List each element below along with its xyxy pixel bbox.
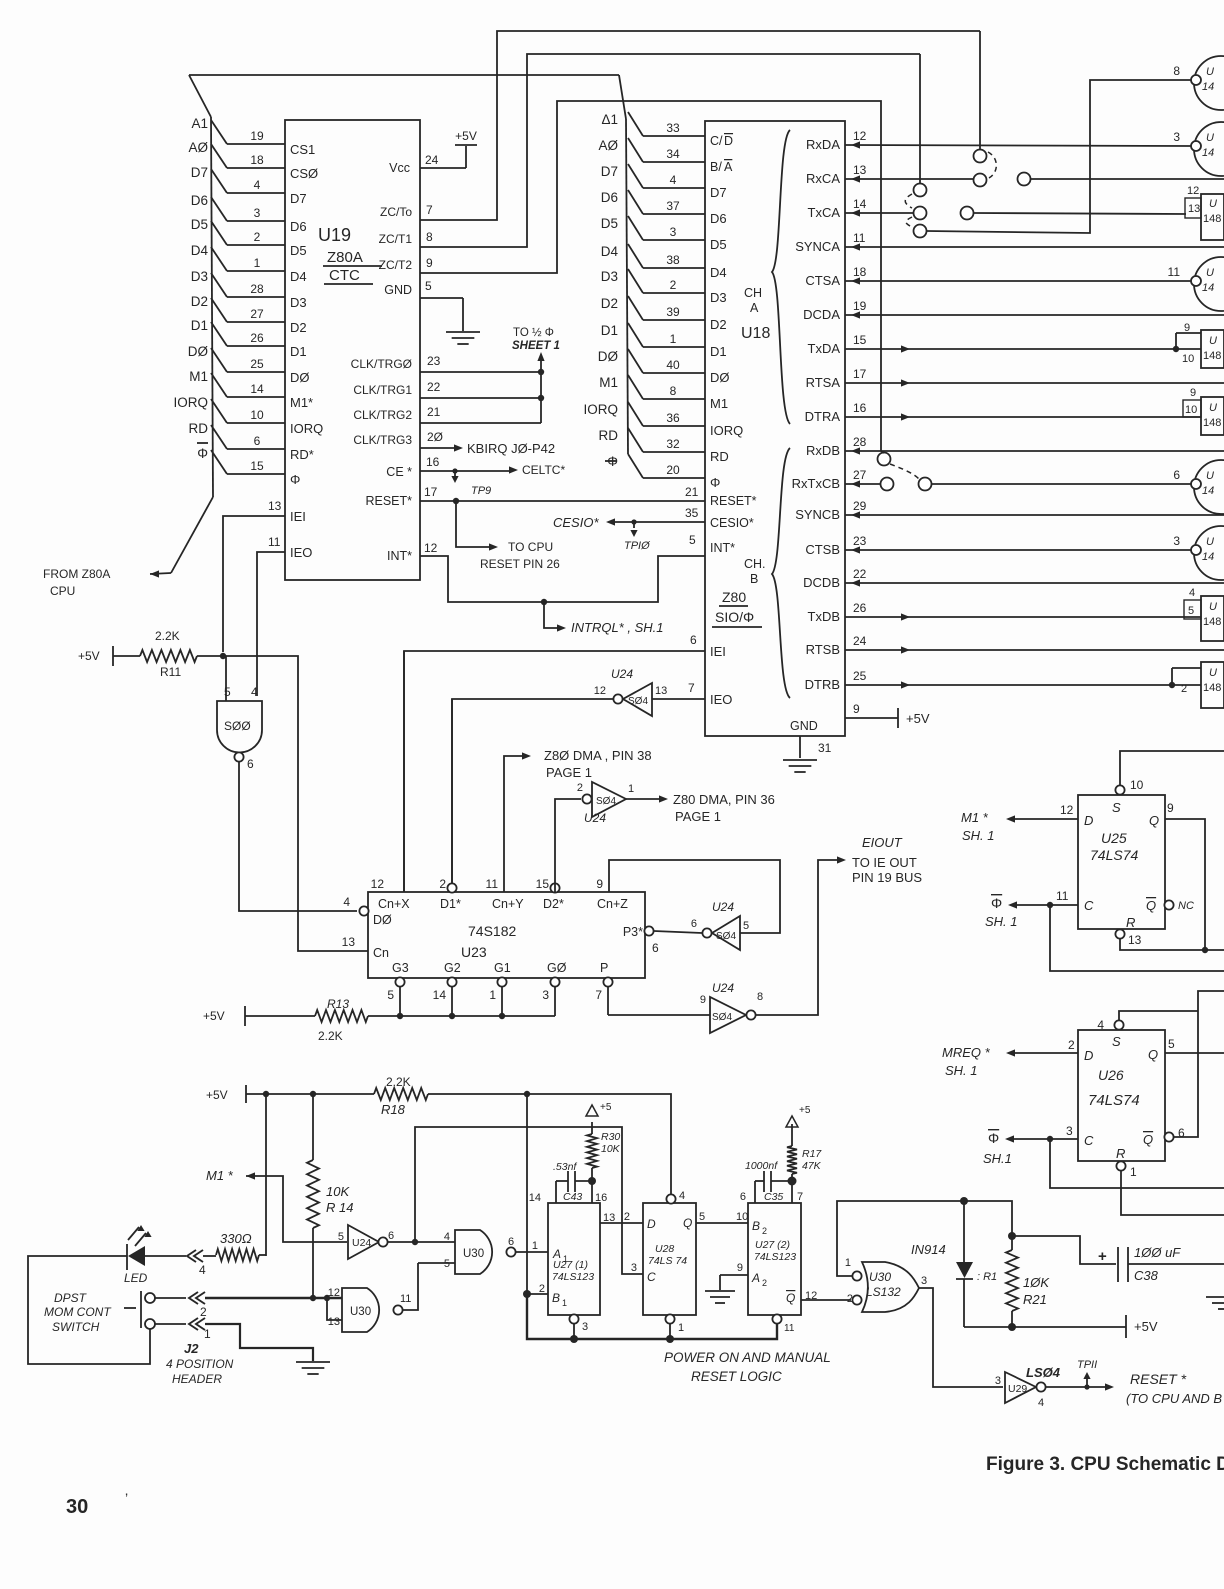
wire U26 S: [1119, 1011, 1198, 1020]
svg-text:SH. 1: SH. 1: [962, 828, 995, 843]
svg-text:28: 28: [853, 435, 867, 449]
svg-text:32: 32: [666, 437, 680, 451]
svg-text:4: 4: [670, 173, 677, 187]
IC U27(1) 74LS123 body: [548, 1203, 600, 1315]
svg-text:Q: Q: [1148, 1047, 1158, 1062]
line driver 1488 (pins 12/13): [1201, 194, 1224, 240]
wire node to S00 pin5: [225, 656, 227, 701]
ground symbol A2: [705, 1290, 735, 1292]
svg-text:DØ: DØ: [598, 349, 619, 364]
svg-text:Q: Q: [786, 1291, 795, 1305]
svg-text:U19: U19: [318, 225, 351, 245]
svg-text:8: 8: [670, 384, 677, 398]
svg-text:R: R: [1126, 915, 1135, 930]
U24 (5-6) bubble: [702, 928, 711, 937]
wire U25 S: [1120, 751, 1224, 785]
junction R21 bottom: [1008, 1323, 1016, 1331]
svg-text:2: 2: [439, 877, 446, 891]
junction R14 bottom: [310, 1295, 316, 1301]
svg-text:G2: G2: [444, 961, 461, 975]
svg-text:Φ: Φ: [988, 1130, 999, 1146]
svg-text:+5: +5: [799, 1105, 811, 1116]
svg-text:Cn+X: Cn+X: [378, 897, 410, 911]
junction B1: [523, 1290, 531, 1298]
wire Cn+X up: [403, 651, 405, 892]
svg-text:IEO: IEO: [290, 545, 312, 560]
svg-text:74LS123: 74LS123: [552, 1271, 594, 1283]
wire R21 to C38: [1012, 1236, 1116, 1264]
LED flash arrows: [128, 1227, 139, 1240]
svg-text:40: 40: [666, 358, 680, 372]
svg-text:R17: R17: [802, 1148, 822, 1160]
resistor R11 2.2K: [140, 650, 197, 662]
svg-text:13: 13: [268, 499, 282, 513]
wire to 330: [203, 1255, 216, 1257]
wire sw lower: [155, 1323, 186, 1325]
svg-text:IORQ: IORQ: [710, 423, 743, 438]
svg-text:10K: 10K: [326, 1184, 350, 1199]
svg-text:D1: D1: [710, 344, 727, 359]
svg-text:11: 11: [486, 877, 499, 891]
svg-text:DCDA: DCDA: [803, 307, 840, 322]
wire CLK/TRG2: [420, 422, 541, 424]
bus bend from top line: [619, 75, 626, 119]
svg-text:Φ: Φ: [197, 446, 208, 461]
svg-text:CH.: CH.: [744, 557, 766, 571]
svg-text:GND: GND: [790, 719, 818, 733]
svg-text:5: 5: [425, 279, 432, 293]
svg-text:12: 12: [1187, 185, 1199, 197]
svg-text:TxDB: TxDB: [808, 609, 841, 624]
svg-text:NC: NC: [1178, 900, 1194, 912]
connector chevron 1: [189, 1318, 198, 1330]
svg-text:10: 10: [250, 408, 264, 422]
svg-text:U27 (1): U27 (1): [553, 1259, 588, 1271]
svg-text:12: 12: [1060, 803, 1074, 817]
svg-text:30: 30: [66, 1496, 88, 1518]
wire C43 to pin14: [555, 1181, 557, 1203]
svg-text:D6: D6: [710, 211, 727, 226]
svg-text:Q: Q: [1143, 1132, 1153, 1147]
IC U23 74S182 body: [368, 892, 645, 978]
svg-text:74LS123: 74LS123: [754, 1251, 796, 1263]
svg-text:37: 37: [666, 199, 680, 213]
svg-text:U: U: [1206, 470, 1214, 482]
svg-text:4: 4: [679, 1190, 685, 1202]
wire to CPU reset: [456, 501, 490, 547]
wire U26 C to phi: [1011, 1138, 1078, 1140]
svg-text:+5V: +5V: [906, 711, 930, 726]
arrow out of RTSA: [901, 379, 910, 386]
+5V symbol at U19: [455, 144, 477, 146]
U23 bubble G1: [497, 977, 506, 986]
IC U28 74LS74 body: [643, 1203, 696, 1315]
svg-text:22: 22: [853, 567, 867, 581]
wire LED pullup: [265, 1094, 267, 1256]
svg-text:15: 15: [250, 459, 264, 473]
wire U29 out: [1046, 1386, 1106, 1388]
wire to 1/2 phi sheet1: [540, 355, 542, 423]
svg-text:INTRQL* , SH.1: INTRQL* , SH.1: [571, 620, 663, 635]
svg-text:3: 3: [1066, 1124, 1073, 1138]
svg-text:6: 6: [1173, 468, 1180, 482]
junction pin3 bottom: [570, 1335, 578, 1343]
svg-text:Z80 DMA, PIN 36: Z80 DMA, PIN 36: [673, 792, 775, 807]
junction G3: [397, 1013, 403, 1019]
svg-text:IORQ: IORQ: [290, 421, 323, 436]
svg-text:10: 10: [1185, 404, 1197, 416]
svg-text:S: S: [1112, 800, 1121, 815]
svg-text:11: 11: [1168, 265, 1181, 279]
svg-text:1: 1: [254, 256, 261, 270]
svg-text:D5: D5: [601, 216, 618, 231]
arrow into CTSB: [851, 546, 860, 553]
svg-text:DTRA: DTRA: [805, 409, 841, 424]
svg-text:PAGE 1: PAGE 1: [546, 765, 592, 780]
svg-text:D3: D3: [191, 269, 208, 284]
svg-text:PIN 19 BUS: PIN 19 BUS: [852, 870, 922, 885]
svg-text:RD: RD: [710, 449, 729, 464]
svg-text:LS132: LS132: [866, 1285, 901, 1299]
svg-text:D1*: D1*: [440, 897, 461, 911]
junction U27 rail: [524, 1091, 530, 1097]
svg-text:2: 2: [762, 1226, 767, 1236]
svg-text:10K: 10K: [601, 1143, 621, 1155]
svg-text:14: 14: [853, 197, 867, 211]
wire A2 ground: [720, 1274, 748, 1276]
svg-text:27: 27: [853, 468, 867, 482]
+5 triangle R17: [786, 1116, 798, 1127]
U23 P3* bubble: [644, 926, 653, 935]
wire pin3 stub: [573, 1324, 575, 1339]
wire INT* U19 to U18: [420, 556, 705, 602]
svg-text:1: 1: [1130, 1165, 1137, 1179]
svg-text:9: 9: [853, 702, 860, 716]
svg-text:R30: R30: [601, 1131, 620, 1143]
svg-text:IN914: IN914: [911, 1242, 946, 1257]
svg-text:LSØ4: LSØ4: [1026, 1365, 1061, 1380]
wire D6 to U19 pin 3: [211, 197, 227, 221]
svg-text:DTRB: DTRB: [805, 677, 840, 692]
svg-text:23: 23: [427, 354, 441, 368]
svg-text:B: B: [552, 1291, 560, 1305]
svg-text:25: 25: [250, 357, 264, 371]
wire D4 to U19 pin 1: [211, 247, 227, 271]
svg-text:U30: U30: [869, 1270, 891, 1284]
svg-text:.53nf: .53nf: [553, 1161, 577, 1173]
wire U26 D to MREQ: [1012, 1052, 1078, 1054]
arrow into DCDB: [851, 579, 860, 586]
svg-text:RxCA: RxCA: [806, 171, 840, 186]
svg-text:CLK/TRG1: CLK/TRG1: [353, 383, 412, 397]
wire c5 to receiver 8: [927, 80, 1191, 233]
svg-text:D3: D3: [601, 269, 618, 284]
svg-text:16: 16: [426, 455, 440, 469]
wire R13 rail: [368, 1015, 555, 1017]
wire DCDA: [845, 314, 1224, 316]
jumper post c8: [878, 453, 891, 466]
junction DTRB: [1169, 682, 1175, 688]
svg-text:SØ4: SØ4: [596, 796, 616, 807]
wire D6 to U18 pin 37: [628, 190, 643, 214]
capacitor C43: [556, 1180, 568, 1182]
svg-text:8: 8: [757, 991, 763, 1003]
diag A1 bus: [189, 75, 211, 117]
wire Φ to U19 pin 15: [211, 450, 227, 474]
U27(2) pin11 bubble: [772, 1314, 781, 1323]
wire c8 stub: [881, 451, 884, 453]
svg-text:U: U: [1209, 335, 1217, 347]
svg-text:U18: U18: [741, 325, 770, 342]
wire ZC/To loop top: [420, 31, 980, 220]
svg-text:14: 14: [1202, 81, 1214, 93]
svg-text:19: 19: [853, 299, 867, 313]
svg-text:74LS74: 74LS74: [1090, 847, 1138, 863]
junction G1: [499, 1013, 505, 1019]
wire to R11: [113, 655, 140, 657]
junction G2: [449, 1013, 455, 1019]
svg-text:13: 13: [1128, 933, 1142, 947]
wire LED left loop: [28, 1256, 150, 1364]
svg-text:148: 148: [1203, 350, 1221, 362]
switch common bar: [140, 1291, 142, 1328]
ground symbol switch: [296, 1361, 330, 1363]
line receiver 1489 (pin 6): [1194, 460, 1224, 514]
svg-text:+5V: +5V: [455, 129, 477, 143]
arrow out of TxDB: [901, 613, 910, 620]
svg-text:TxCA: TxCA: [808, 205, 841, 220]
arrow into RxCA: [851, 175, 860, 182]
wire +5V return: [964, 1326, 1126, 1328]
svg-text:14: 14: [1202, 147, 1214, 159]
svg-text:7: 7: [688, 681, 695, 695]
LS132 input2 bubble: [852, 1295, 861, 1304]
svg-text:CESIO*: CESIO*: [710, 516, 754, 530]
svg-text:3: 3: [1173, 534, 1180, 548]
NAND U30a: [455, 1230, 492, 1274]
svg-text:SØØ: SØØ: [224, 719, 251, 733]
svg-text:15: 15: [853, 333, 867, 347]
svg-text:IEI: IEI: [290, 509, 306, 524]
svg-text:D: D: [1084, 1048, 1093, 1063]
svg-text:7: 7: [595, 988, 602, 1002]
svg-text:U: U: [1206, 66, 1214, 78]
svg-text:D1: D1: [290, 344, 307, 359]
svg-text:U: U: [1206, 132, 1214, 144]
svg-text:Q: Q: [1149, 813, 1159, 828]
wire U26 Qbar: [1174, 991, 1224, 1137]
svg-text:SØ4: SØ4: [628, 696, 648, 707]
svg-text:2: 2: [1181, 683, 1187, 695]
U30a bubble: [506, 1247, 515, 1256]
svg-text:S: S: [1112, 1034, 1121, 1049]
capacitor C35: [755, 1180, 764, 1182]
svg-text:8: 8: [426, 230, 433, 244]
svg-text:D1: D1: [601, 323, 618, 338]
wire sw2 to U30b: [205, 1297, 342, 1299]
wire U26 phi down: [1050, 1139, 1224, 1188]
junction Q-R: [1202, 947, 1208, 953]
svg-text:D4: D4: [601, 244, 619, 259]
svg-text:DØ: DØ: [373, 913, 392, 927]
junction R14 top: [310, 1091, 316, 1097]
overline of U18 phi bus label: [605, 460, 616, 462]
wire dot to pin16: [591, 1181, 593, 1203]
svg-text:RESET*: RESET*: [710, 494, 757, 508]
svg-text:4: 4: [343, 895, 350, 909]
IC U26 74LS74 body: [1078, 1030, 1165, 1161]
svg-text:Figure 3. CPU Schematic Dia: Figure 3. CPU Schematic Dia: [986, 1454, 1224, 1475]
svg-text:25: 25: [853, 669, 867, 683]
svg-text:47K: 47K: [802, 1160, 822, 1172]
svg-text:(TO CPU AND B: (TO CPU AND B: [1126, 1391, 1222, 1406]
svg-text:38: 38: [666, 253, 680, 267]
svg-text:U24: U24: [712, 900, 734, 914]
svg-text:Φ: Φ: [290, 472, 300, 487]
svg-text:5: 5: [1168, 1037, 1175, 1051]
wire Cn+Y to DMA38: [504, 756, 523, 892]
svg-text:28: 28: [250, 282, 264, 296]
capacitor C38: [1117, 1247, 1119, 1282]
svg-text:M1*: M1*: [290, 395, 313, 410]
svg-text:26: 26: [250, 331, 264, 345]
svg-text:10: 10: [1130, 778, 1144, 792]
wire CTSB: [845, 549, 1191, 551]
svg-text:CS1: CS1: [290, 142, 315, 157]
junction INTRQL branch: [541, 599, 547, 605]
arrow into RxDB: [851, 447, 860, 454]
svg-text:R11: R11: [160, 665, 181, 679]
LED symbol: [128, 1246, 145, 1266]
junction diode top: [960, 1197, 968, 1205]
svg-text:17: 17: [424, 485, 438, 499]
svg-text:D2: D2: [191, 294, 208, 309]
svg-text:21: 21: [427, 405, 441, 419]
svg-text:11: 11: [784, 1323, 795, 1334]
IC U27(2) 74LS123 body: [748, 1203, 801, 1315]
U25 S bubble: [1115, 785, 1124, 794]
line receiver 1489 (pin 11): [1194, 257, 1224, 311]
svg-text:74S182: 74S182: [468, 923, 516, 939]
svg-text:Φ: Φ: [710, 475, 720, 490]
wire D2 to U18 pin 39: [628, 296, 643, 320]
junction CLK/TRG1: [538, 395, 544, 401]
wire D1 to U19 pin 26: [211, 322, 227, 346]
junction IEI node: [220, 653, 226, 659]
wire U27 Q to U28 D: [600, 1222, 643, 1224]
svg-text:CTC: CTC: [329, 267, 360, 284]
svg-text:CLK/TRG2: CLK/TRG2: [353, 408, 412, 422]
svg-text:15: 15: [536, 877, 550, 891]
svg-text:2: 2: [670, 278, 677, 292]
resistor R17 47K: [791, 1124, 793, 1146]
wire to Z80A CPU: [171, 497, 213, 573]
wire RxDA: [845, 145, 1191, 146]
wire to R13: [245, 1015, 315, 1017]
svg-text:5: 5: [338, 1231, 344, 1243]
svg-text:10: 10: [1182, 353, 1194, 365]
svg-text:B/: B/: [710, 160, 722, 174]
svg-text:6: 6: [247, 757, 254, 771]
svg-text:D3: D3: [290, 295, 307, 310]
wire DTRB: [845, 684, 1172, 686]
junction LED vert: [263, 1091, 269, 1097]
wire rail to bottom: [527, 1294, 777, 1339]
svg-text:D4: D4: [191, 243, 209, 258]
svg-text:148: 148: [1203, 682, 1221, 694]
svg-text:U: U: [1209, 667, 1217, 679]
jumper post c3: [914, 184, 927, 197]
wire D3 to U19 pin 28: [211, 273, 227, 297]
jumper post c2: [974, 174, 987, 187]
svg-text:D5: D5: [191, 217, 208, 232]
connector chevron 2: [189, 1292, 198, 1304]
svg-text:U24: U24: [352, 1237, 371, 1249]
svg-text:22: 22: [427, 380, 441, 394]
svg-text:6: 6: [254, 434, 261, 448]
svg-text:2.2K: 2.2K: [386, 1075, 411, 1089]
wire TxDA: [845, 348, 1176, 350]
wire D1* up: [451, 699, 453, 884]
diode 1N914 :R1: [963, 1201, 965, 1262]
svg-text:14: 14: [433, 988, 447, 1002]
svg-text:R21: R21: [1023, 1292, 1047, 1307]
resistor 330 ohm: [216, 1249, 259, 1261]
inverter U24 (2-1): [592, 782, 626, 817]
R13 +5V bar: [244, 1006, 246, 1026]
junction buffer out: [412, 1239, 418, 1245]
U26 S bubble: [1114, 1020, 1123, 1029]
svg-text:11: 11: [853, 231, 866, 245]
svg-text:33: 33: [666, 121, 680, 135]
svg-text:D1: D1: [191, 318, 208, 333]
arrow into SYNCA: [851, 243, 860, 250]
svg-text:P: P: [600, 961, 608, 975]
svg-text:2: 2: [577, 782, 583, 794]
junction TxDA: [1173, 346, 1179, 352]
svg-text:HEADER: HEADER: [172, 1372, 222, 1386]
svg-text:Cn: Cn: [373, 946, 389, 960]
svg-text:148: 148: [1203, 616, 1221, 628]
resistor R18 2.2K: [374, 1088, 428, 1100]
junction U26 C: [1047, 1136, 1053, 1142]
svg-text:14: 14: [529, 1192, 541, 1204]
svg-text:FROM Z80A: FROM Z80A: [43, 567, 110, 581]
wire IORQ to U19 pin 10: [211, 399, 227, 423]
junction pin1 bottom: [666, 1335, 674, 1343]
svg-text:U24: U24: [584, 811, 606, 825]
resistor R30 10K: [591, 1122, 593, 1134]
wire pin1 stub: [669, 1324, 671, 1339]
svg-text:2Ø: 2Ø: [427, 430, 443, 444]
junction RESET branch: [453, 498, 459, 504]
svg-text:DPST: DPST: [54, 1291, 88, 1305]
arrow into RxTxCB: [851, 480, 860, 487]
jumper arc c3-c4: [905, 194, 912, 208]
wire Qbar to LS132: [801, 1299, 851, 1301]
wire C35 to pin6: [754, 1181, 756, 1203]
brace channel A: [772, 130, 790, 424]
wire ZC/T1 loop top: [420, 54, 920, 247]
svg-text:Cn+Y: Cn+Y: [492, 897, 524, 911]
line driver 1488 (pins 9/10) TxDA: [1201, 330, 1224, 368]
junction TP10: [631, 519, 636, 524]
svg-text:IEI: IEI: [710, 644, 726, 659]
wire rail to B1: [527, 1094, 548, 1294]
bracket TxDA pins: [1176, 332, 1201, 334]
svg-text:U30: U30: [350, 1306, 371, 1318]
NAND U30b: [342, 1288, 379, 1332]
